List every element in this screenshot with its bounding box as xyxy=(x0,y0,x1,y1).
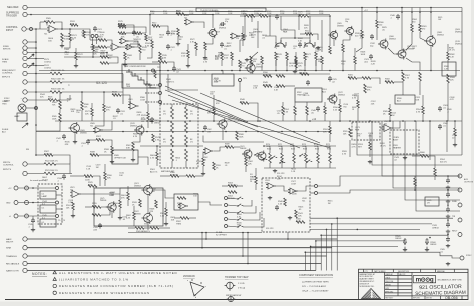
junction xyxy=(315,240,317,242)
junction xyxy=(205,232,207,234)
wire xyxy=(388,48,398,54)
svg-text:COM: COM xyxy=(150,13,155,15)
diode D1 xyxy=(150,117,153,124)
wire xyxy=(101,207,110,215)
svg-text:TRIM: TRIM xyxy=(2,61,7,63)
wire xyxy=(369,150,371,157)
resistor R88 xyxy=(349,128,352,137)
junction xyxy=(304,70,306,72)
wire xyxy=(333,39,335,46)
junction xyxy=(35,65,37,67)
svg-text:COM: COM xyxy=(291,183,296,185)
wire xyxy=(72,29,90,40)
wire bundle drop 5 xyxy=(310,246,312,270)
junction xyxy=(263,145,265,147)
svg-text:2N3904: 2N3904 xyxy=(134,185,141,187)
wire xyxy=(281,163,283,168)
capacitor C2 xyxy=(275,14,279,20)
svg-text:741: 741 xyxy=(70,189,73,191)
resistor R135 xyxy=(159,52,162,60)
resistor R104 xyxy=(139,199,142,207)
resistor R80 xyxy=(225,146,234,149)
wire xyxy=(185,161,187,168)
resistor R120 xyxy=(284,198,287,206)
resistor R191 xyxy=(158,61,167,64)
resistor R224 xyxy=(255,176,258,184)
switch contact SW9 xyxy=(272,156,277,158)
svg-text:PAIR: PAIR xyxy=(283,30,288,33)
op-amp U6 xyxy=(178,203,188,209)
wire xyxy=(324,102,326,106)
wire bundle drop 1 xyxy=(331,224,333,271)
wire drop 2 xyxy=(205,232,207,239)
svg-text:1M: 1M xyxy=(96,167,99,169)
resistor R147 xyxy=(339,104,342,112)
junction xyxy=(242,232,244,234)
ground xyxy=(186,64,190,68)
wire xyxy=(26,107,36,109)
junction xyxy=(326,229,328,231)
resistor R175 xyxy=(152,134,155,142)
resistor R166 xyxy=(414,178,417,186)
junction xyxy=(257,120,259,122)
resistor R100 xyxy=(44,163,56,166)
capacitor C46 xyxy=(316,106,320,112)
capacitor C31 xyxy=(116,108,120,114)
resistor R85 xyxy=(282,106,285,115)
wire xyxy=(250,64,252,71)
wire xyxy=(265,36,276,43)
wire xyxy=(422,95,424,106)
terminal +12V xyxy=(14,186,18,190)
wire xyxy=(107,40,112,44)
svg-text:TRIM: TRIM xyxy=(176,223,181,225)
svg-text:1K 1%: 1K 1% xyxy=(380,146,386,148)
wire xyxy=(202,152,204,159)
wire xyxy=(139,53,141,60)
wire xyxy=(401,8,403,51)
wire xyxy=(147,120,149,128)
resistor R144 xyxy=(240,102,249,105)
wire xyxy=(228,219,239,220)
terminal J3 CONTROL INPUT xyxy=(22,27,26,31)
resistor R151 xyxy=(454,128,457,136)
switch contact SW2 xyxy=(238,218,243,220)
wire xyxy=(132,151,134,158)
wire bundle drop 6 xyxy=(304,252,306,270)
wire xyxy=(168,74,198,90)
matched box 2 xyxy=(352,122,380,140)
bias box xyxy=(395,95,415,104)
wire xyxy=(55,22,62,29)
resistor R192 xyxy=(96,139,105,142)
svg-text:2 W adj: 2 W adj xyxy=(238,288,246,290)
svg-text:R532: R532 xyxy=(291,149,295,151)
wire xyxy=(27,58,36,60)
wire xyxy=(140,145,203,147)
wire xyxy=(59,92,61,100)
power filter dashed box xyxy=(38,184,62,224)
sine shaper box xyxy=(262,178,310,232)
wire xyxy=(285,85,295,87)
wire xyxy=(393,121,400,128)
resistor R43 xyxy=(315,52,318,60)
resistor R186 xyxy=(434,168,437,176)
resistor R150 xyxy=(422,106,425,114)
wire xyxy=(18,187,55,189)
svg-text:1%: 1% xyxy=(163,113,166,115)
wire xyxy=(189,217,196,219)
terminal J9 xyxy=(23,90,27,94)
svg-text:71-123: 71-123 xyxy=(58,220,66,222)
wire xyxy=(75,60,77,64)
resistor R45 xyxy=(342,44,345,52)
svg-text:4.7K: 4.7K xyxy=(237,216,242,218)
terminal J11 xyxy=(23,171,27,175)
svg-text:S2 OFFSET: S2 OFFSET xyxy=(216,234,228,236)
wire bundle 4 xyxy=(316,240,405,242)
capacitor C41 xyxy=(172,66,176,72)
svg-text:DESIGNATES PC BOARD W/FEEDTHRO: DESIGNATES PC BOARD W/FEEDTHROUGHS xyxy=(59,291,150,295)
wire shaper bottom xyxy=(128,232,262,234)
svg-text:COM: COM xyxy=(306,13,311,15)
junction xyxy=(35,73,37,75)
wire xyxy=(185,15,213,23)
wire xyxy=(222,128,224,140)
wire xyxy=(36,154,44,156)
junction xyxy=(247,232,249,234)
junction xyxy=(35,124,37,126)
junction xyxy=(245,131,247,133)
svg-text:.033: .033 xyxy=(207,131,211,133)
svg-text:2N3904: 2N3904 xyxy=(130,125,137,127)
terminal TRIANGLE xyxy=(23,254,27,258)
junction xyxy=(146,120,148,122)
svg-text:DESCRIPTION: DESCRIPTION xyxy=(398,271,410,273)
wire HALF WIDTH line xyxy=(27,238,337,240)
wire xyxy=(194,22,204,28)
resistor R163 xyxy=(135,227,144,230)
cap box 1 xyxy=(40,191,56,199)
wire bundle drop 0 xyxy=(336,218,338,270)
junction xyxy=(61,28,63,30)
temp comp network box xyxy=(122,64,160,88)
resistor R176 xyxy=(348,77,357,80)
wire xyxy=(147,48,152,58)
terminal P3b xyxy=(25,214,29,218)
junction xyxy=(281,131,283,133)
wire xyxy=(255,168,257,176)
capacitor C29 xyxy=(132,30,136,36)
svg-text:2N4058: 2N4058 xyxy=(240,148,246,150)
junction xyxy=(447,204,449,206)
svg-text:GND: GND xyxy=(6,203,11,205)
junction xyxy=(389,120,391,122)
resistor R73 xyxy=(171,149,174,161)
junction xyxy=(167,70,169,72)
connector bead 1 xyxy=(56,187,59,190)
resistor R195 xyxy=(127,192,130,200)
svg-text:INPUTS: INPUTS xyxy=(2,77,11,79)
junction xyxy=(447,234,449,236)
wire xyxy=(126,27,146,33)
resistor R173 xyxy=(91,108,94,116)
capacitor bypass xyxy=(446,192,450,198)
svg-text:1N914: 1N914 xyxy=(154,122,160,124)
resistor R212 xyxy=(305,33,313,36)
svg-text:6.8K: 6.8K xyxy=(92,205,97,207)
svg-text:2N3904: 2N3904 xyxy=(389,38,396,40)
svg-text:4.7K: 4.7K xyxy=(416,111,421,113)
svg-text:2N3904/06: 2N3904/06 xyxy=(183,275,195,278)
title block middle rows xyxy=(385,272,468,296)
junction xyxy=(336,217,338,219)
terminal RECT xyxy=(458,233,462,237)
ground xyxy=(71,214,75,218)
wire xyxy=(242,40,244,46)
wire xyxy=(81,193,95,195)
ground xyxy=(118,216,122,220)
svg-text:COM: COM xyxy=(228,13,233,15)
wire xyxy=(58,95,70,100)
svg-text:MOOG MUSIC INC.: MOOG MUSIC INC. xyxy=(360,276,374,278)
svg-text:2.2K: 2.2K xyxy=(277,178,282,180)
resistor R115 xyxy=(329,153,332,163)
resistor R172 xyxy=(118,24,126,27)
junction xyxy=(201,247,203,249)
wire xyxy=(361,8,363,31)
svg-text:PAIR: PAIR xyxy=(355,128,360,131)
wire xyxy=(27,163,44,165)
wire fan 3 xyxy=(382,121,460,176)
capacitor C51 xyxy=(298,42,302,48)
wire xyxy=(389,116,391,121)
wire out stair 2 xyxy=(318,190,461,193)
resistor R222 xyxy=(295,56,298,64)
wire xyxy=(282,115,284,121)
transistor Q12 2N3904 xyxy=(71,124,80,133)
capacitor C22 xyxy=(369,54,373,60)
op-amp U4 xyxy=(382,125,393,132)
svg-text:ATTEN 1%: ATTEN 1% xyxy=(228,184,238,187)
resistor R185 xyxy=(180,217,189,220)
wire xyxy=(244,16,246,40)
svg-text:R562 100K 1%: R562 100K 1% xyxy=(51,79,65,81)
junction xyxy=(419,11,421,13)
wire xyxy=(276,186,290,191)
svg-text:m⊙⊙g: m⊙⊙g xyxy=(416,277,434,284)
resistor R156 xyxy=(202,158,205,166)
terminal AUX1 xyxy=(458,174,462,178)
wire xyxy=(243,200,252,206)
svg-text:5.1K: 5.1K xyxy=(160,215,165,217)
resistor R143 xyxy=(213,107,216,115)
wire xyxy=(127,200,129,206)
svg-text:SINE: SINE xyxy=(452,201,457,203)
terminal SINE xyxy=(23,246,27,250)
wire xyxy=(127,186,129,192)
wire xyxy=(376,28,378,40)
junction xyxy=(294,37,296,39)
resistor R180 xyxy=(354,56,357,64)
wire xyxy=(329,16,331,46)
note 4 symbol xyxy=(53,291,56,294)
wire xyxy=(275,60,277,66)
svg-text:2N3904: 2N3904 xyxy=(455,31,463,33)
resistor R46 xyxy=(239,60,242,68)
junction xyxy=(69,28,71,30)
svg-text:4.7K: 4.7K xyxy=(450,99,455,101)
svg-text:COM: COM xyxy=(293,13,298,15)
svg-text:741: 741 xyxy=(128,101,131,103)
wire xyxy=(99,154,112,156)
svg-text:3.6K: 3.6K xyxy=(64,38,69,40)
svg-text:100K 1%: 100K 1% xyxy=(263,74,271,76)
svg-text:100K: 100K xyxy=(292,193,297,195)
wire xyxy=(36,122,60,131)
capacitor C27 xyxy=(438,124,442,130)
transistor Q21 xyxy=(144,214,153,223)
trim box xyxy=(295,88,322,102)
wire xyxy=(187,44,189,50)
svg-text:4.7K: 4.7K xyxy=(405,77,410,79)
svg-text:TRIANGLE: TRIANGLE xyxy=(6,255,17,258)
note 1 symbol xyxy=(53,271,56,274)
ground xyxy=(268,196,272,200)
wire xyxy=(329,163,331,168)
transistor Q20 xyxy=(144,186,153,195)
expo converter box xyxy=(94,188,163,226)
op-amp U1A xyxy=(47,26,58,33)
resistor R149 xyxy=(369,142,372,150)
svg-text:CON 1%: CON 1% xyxy=(263,84,271,86)
wire xyxy=(286,60,288,71)
connector bead A3 xyxy=(159,101,162,104)
wire xyxy=(394,81,403,83)
svg-text:TEMP COMPEN NETWORK: TEMP COMPEN NETWORK xyxy=(124,66,147,68)
wire xyxy=(242,26,244,33)
svg-text:ADJ: ADJ xyxy=(397,99,401,102)
wire xyxy=(58,28,72,30)
junction xyxy=(401,11,403,13)
wire diagonal B xyxy=(165,90,258,127)
wire xyxy=(240,15,246,17)
wire xyxy=(133,206,135,212)
svg-text:ADJ: ADJ xyxy=(2,130,6,133)
wire xyxy=(306,102,308,106)
svg-text:100K: 100K xyxy=(227,45,232,47)
wire xyxy=(27,73,50,75)
capacitor C26 xyxy=(438,106,442,112)
wire xyxy=(130,43,140,45)
wire xyxy=(119,194,121,200)
capacitor C21 xyxy=(166,44,170,50)
capacitor bypass xyxy=(446,207,450,213)
wire xyxy=(46,22,48,26)
switch contact SW0 xyxy=(238,204,243,206)
svg-text:TRIG: TRIG xyxy=(2,103,7,105)
svg-text:COM 1%: COM 1% xyxy=(170,174,178,176)
svg-text:TRIGGER: TRIGGER xyxy=(6,14,17,17)
svg-text:150K: 150K xyxy=(52,118,57,120)
wire xyxy=(160,175,170,177)
wire xyxy=(429,121,431,160)
wire xyxy=(245,166,247,172)
connector bead out2 xyxy=(315,192,318,195)
logo triangle xyxy=(362,289,381,299)
wire xyxy=(339,112,341,121)
resistor R42 xyxy=(304,52,307,60)
svg-text:1 5 KΩ: 1 5 KΩ xyxy=(238,282,245,285)
terminal J6 xyxy=(23,50,27,54)
ground xyxy=(164,222,168,226)
trimmer symbol 2 xyxy=(228,296,233,301)
wire xyxy=(36,65,44,67)
svg-text:CH,μR → 71-125 KLB ASSY: CH,μR → 71-125 KLB ASSY xyxy=(302,290,329,293)
wire xyxy=(231,60,233,66)
junction xyxy=(275,70,277,72)
capacitor C33 xyxy=(62,174,66,180)
wire xyxy=(91,116,93,121)
wire fan 4 xyxy=(393,121,460,188)
wire xyxy=(70,175,84,177)
resistor R141 xyxy=(103,104,106,112)
svg-text:SAWTOOTH: SAWTOOTH xyxy=(6,270,19,273)
resistor R178 xyxy=(385,81,394,84)
capacitor C4 xyxy=(306,80,310,86)
ground xyxy=(446,215,450,219)
resistor R44 xyxy=(329,46,332,54)
wire xyxy=(93,176,100,186)
wire xyxy=(228,226,239,227)
wire bundle drop 3 xyxy=(320,235,322,270)
wire xyxy=(59,109,61,113)
svg-text:R534: R534 xyxy=(315,149,319,151)
wire xyxy=(81,92,83,101)
wire xyxy=(430,8,432,37)
wire xyxy=(357,95,359,100)
wire xyxy=(354,64,356,71)
resistor R221 xyxy=(261,56,264,64)
svg-text:WIPER ARROW: WIPER ARROW xyxy=(226,294,241,297)
svg-text:SYNC: SYNC xyxy=(466,255,472,257)
terminal J13 xyxy=(23,63,27,67)
wire xyxy=(126,25,134,32)
wire xyxy=(152,61,158,63)
wire xyxy=(240,35,247,37)
wire xyxy=(195,50,197,56)
wire xyxy=(406,58,420,71)
ground xyxy=(60,44,64,48)
terminal AUX2 xyxy=(458,188,462,192)
wire xyxy=(111,211,113,218)
resistor R211 xyxy=(242,33,245,40)
svg-text:.05: .05 xyxy=(293,48,296,50)
ground xyxy=(446,262,450,266)
svg-text:(L)VARISTORS MATCHED TO 0.1%: (L)VARISTORS MATCHED TO 0.1% xyxy=(59,277,129,281)
junction xyxy=(204,70,206,72)
wire xyxy=(27,65,36,67)
resistor R40 xyxy=(275,52,278,60)
wire sync corner xyxy=(440,252,460,258)
wire xyxy=(96,38,98,45)
svg-text:CHECK: CHECK xyxy=(385,277,390,279)
svg-text:COM: COM xyxy=(163,13,168,15)
wire xyxy=(103,121,112,130)
svg-text:4.7K: 4.7K xyxy=(289,66,294,68)
terminal J12 xyxy=(23,56,27,60)
svg-text:3.3K: 3.3K xyxy=(145,45,150,47)
